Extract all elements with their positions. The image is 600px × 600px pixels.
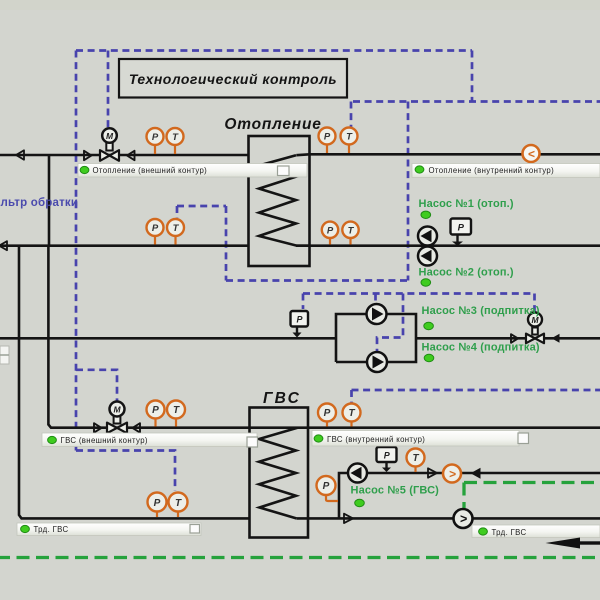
sensor P heating supply internal (319, 128, 336, 154)
wire green bottom main (0, 556, 600, 559)
svg-text:P: P (296, 315, 303, 325)
valve M1 heating inlet (84, 128, 135, 161)
pressure box P makeup (291, 311, 309, 338)
wire ctrl right corner vertical (471, 51, 474, 102)
svg-text:P: P (152, 132, 159, 143)
heat exchanger HX1 coil (259, 155, 310, 246)
pump N5 hws (348, 464, 367, 483)
sensor P heating supply external (147, 128, 164, 154)
wire ctrl top horizontal (76, 49, 472, 52)
pump N1 heating (418, 227, 437, 246)
status bar hws internal (312, 431, 529, 447)
pressure box P heating return (451, 219, 472, 246)
svg-text:Насос №2 (отоп.): Насос №2 (отоп.) (419, 267, 514, 279)
status dot pump N5 (355, 499, 365, 506)
pipe riser x48 (48, 246, 249, 428)
svg-text:Насос №5 (ГВС): Насос №5 (ГВС) (351, 485, 440, 497)
valve M makeup (511, 313, 544, 344)
G4: heat exchanger 1 heating (249, 136, 310, 266)
sensor P trd hws (148, 493, 167, 518)
wire ctrl to sensor T trd hws (76, 451, 175, 492)
flow indicator heating supply internal (523, 145, 540, 162)
direction arrow bottom right (546, 538, 600, 549)
pipe makeup box outline (336, 314, 416, 362)
wire ctrl horizontal y206 (177, 205, 226, 208)
svg-text:P: P (152, 223, 159, 234)
flow arrow makeup (552, 334, 560, 343)
svg-text:P: P (384, 451, 391, 461)
wire ctrl to valve M makeup (533, 294, 536, 312)
wire green drop to circulation pump (462, 483, 465, 509)
svg-text:P: P (327, 225, 334, 236)
pipe heating return external (0, 244, 249, 247)
svg-text:P: P (152, 405, 159, 416)
check valve hws pump line (428, 468, 437, 477)
G2: green dashed circulation line (0, 483, 600, 558)
svg-text:Технологический контроль: Технологический контроль (129, 71, 337, 87)
svg-text:M: M (113, 405, 121, 415)
status dot pump N1 (421, 211, 431, 218)
pipe heating supply internal (296, 153, 600, 156)
valve M2 hws inlet (94, 402, 140, 434)
sensor P hws internal (318, 404, 336, 427)
sensor P heating return external (147, 219, 164, 245)
wire ctrl to pump N4 (377, 294, 403, 352)
sensor T heating supply external (167, 128, 184, 154)
status dot pump N4 (424, 354, 434, 361)
G1: dashed control lines (blue) (76, 51, 600, 492)
flow indicator hws pump line (443, 465, 461, 483)
svg-text:M: M (106, 131, 114, 141)
G3: black pipes (0, 154, 600, 518)
check valve hws recirculation (344, 514, 353, 523)
wire ctrl vertical x408 (407, 102, 410, 281)
wire ctrl to valve M1 (107, 51, 110, 128)
svg-text:P: P (323, 481, 330, 492)
sensor T heating return internal (342, 222, 358, 245)
wire ctrl left vertical (75, 51, 78, 451)
svg-text:P: P (324, 132, 331, 143)
svg-text:Трд. ГВС: Трд. ГВС (34, 525, 69, 534)
pump N2 heating (418, 247, 437, 266)
svg-text:льтр обратки: льтр обратки (1, 197, 79, 209)
status bar trd hws left (17, 523, 201, 536)
sensor T trd hws (169, 493, 188, 518)
svg-text:T: T (348, 408, 355, 419)
pipe riser x49 (48, 155, 51, 246)
sensor T hws pump line (407, 449, 425, 473)
svg-text:T: T (173, 405, 180, 416)
wire ctrl to pump N3 (374, 294, 377, 304)
svg-text:Насос №3 (подпитка): Насос №3 (подпитка) (422, 305, 540, 317)
status bar trd hws right (472, 525, 600, 538)
pipe makeup right (416, 337, 600, 340)
title box technological control (119, 59, 347, 98)
left edge panel fragment (0, 346, 9, 364)
sensor P hws external (147, 401, 165, 427)
wire ctrl to sensor T hws internal (350, 390, 353, 403)
pipe heating supply external (0, 154, 249, 157)
svg-text:P: P (458, 223, 465, 234)
status bar heating external (78, 164, 307, 178)
svg-text:>: > (460, 512, 467, 526)
flow arrow heating return external (0, 241, 7, 250)
svg-text:ГВС (внутренний контур): ГВС (внутренний контур) (327, 435, 425, 444)
wire ctrl to pressure box P makeup (302, 294, 305, 310)
sensor T heating supply internal (341, 128, 358, 154)
svg-text:ГВС: ГВС (263, 390, 301, 407)
status bar heating internal (412, 164, 600, 178)
svg-text:Отопление: Отопление (224, 116, 321, 133)
heat exchanger HX1 body (249, 136, 310, 266)
pipe hws recirculation lower (296, 517, 600, 520)
svg-text:Насос №1 (отоп.): Насос №1 (отоп.) (419, 198, 514, 210)
sensor P heating return internal (322, 222, 338, 245)
flow arrow hws pump line (471, 468, 481, 479)
wire ctrl vertical x226 (225, 206, 228, 281)
svg-text:P: P (154, 498, 161, 509)
pump N3 makeup (367, 304, 387, 324)
svg-text:>: > (449, 467, 456, 481)
pump N4 makeup (367, 352, 387, 372)
G5: heat exchanger 2 hws (250, 408, 309, 538)
heat exchanger HX2 coil (259, 428, 298, 519)
wire ctrl horizontal y293 (303, 292, 535, 295)
svg-text:<: < (528, 147, 535, 161)
circulation pump hws recirculation (454, 509, 473, 528)
status bar hws external (42, 433, 258, 447)
status dot pump N3 (424, 322, 434, 329)
pipe makeup left (0, 337, 336, 340)
status dot pump N2 (421, 279, 431, 286)
svg-text:Отопление (внешний контур): Отопление (внешний контур) (93, 166, 208, 175)
svg-text:T: T (175, 498, 182, 509)
svg-text:T: T (412, 453, 419, 464)
sensor T hws internal (343, 404, 361, 427)
svg-text:Трд. ГВС: Трд. ГВС (492, 528, 527, 537)
svg-text:P: P (324, 408, 331, 419)
flow arrow heating supply external (16, 150, 24, 159)
sensor T hws external (167, 401, 185, 427)
svg-text:ГВС (внешний контур): ГВС (внешний контур) (61, 436, 148, 445)
wire ctrl to sensor T heating return external (176, 206, 179, 218)
heat exchanger HX2 body (250, 408, 309, 538)
sensor T heating return external (167, 219, 184, 245)
wire ctrl horizontal y280 (226, 279, 408, 282)
pipe hws supply (250, 426, 600, 429)
wire green circulation right (464, 481, 600, 484)
pipe riser x19 (19, 246, 250, 519)
pressure box P hws (377, 447, 397, 472)
svg-text:Насос №4 (подпитка): Насос №4 (подпитка) (422, 342, 540, 354)
wire ctrl horizontal y390 (352, 389, 600, 392)
svg-text:Отопление (внутренний контур): Отопление (внутренний контур) (429, 166, 555, 175)
pipe hws pump branch (339, 473, 600, 518)
wire ctrl branch to valve M hws (76, 370, 117, 401)
wire ctrl to sensor T heating supply internal (350, 102, 353, 129)
sensor P hws riser (317, 476, 339, 501)
pipe heating return internal (296, 244, 600, 247)
wire ctrl horizontal y102 (353, 100, 600, 103)
